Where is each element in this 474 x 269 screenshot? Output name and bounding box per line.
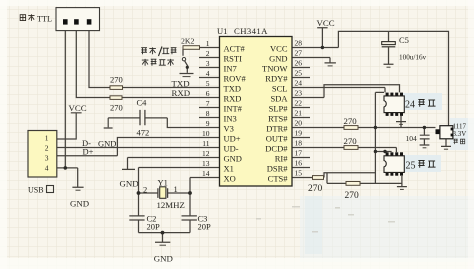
svg-text:RDY#: RDY# (265, 74, 288, 84)
svg-text:SLP#: SLP# (269, 104, 289, 114)
svg-text:270: 270 (110, 103, 123, 113)
svg-text:U1: U1 (217, 26, 227, 36)
svg-text:6: 6 (206, 89, 210, 98)
svg-text:GND: GND (154, 253, 173, 263)
svg-text:100u/16v: 100u/16v (399, 53, 427, 61)
svg-text:104: 104 (406, 134, 418, 143)
svg-text:CTS#: CTS# (268, 174, 289, 184)
svg-text:INT#: INT# (224, 104, 243, 114)
svg-text:UD-: UD- (224, 144, 239, 154)
svg-text:23: 23 (295, 89, 303, 98)
svg-text:12: 12 (202, 149, 210, 158)
svg-text:24: 24 (295, 79, 303, 88)
svg-text:TXD: TXD (224, 84, 241, 94)
svg-text:IN3: IN3 (224, 114, 237, 124)
svg-text:OUT#: OUT# (266, 134, 288, 144)
svg-text:2K2: 2K2 (181, 36, 195, 45)
svg-text:26: 26 (295, 59, 303, 68)
svg-text:RXD: RXD (224, 94, 242, 104)
svg-text:270: 270 (345, 191, 360, 201)
svg-text:C4: C4 (137, 98, 148, 108)
svg-text:D+: D+ (83, 147, 94, 157)
svg-text:CH341A: CH341A (234, 26, 268, 36)
svg-text:RI#: RI# (275, 154, 289, 164)
svg-text:TXD: TXD (172, 78, 190, 88)
svg-text:RSTI: RSTI (224, 54, 243, 64)
svg-text:270: 270 (344, 116, 358, 126)
svg-text:14: 14 (202, 169, 210, 178)
svg-text:9: 9 (206, 119, 210, 128)
svg-text:3: 3 (45, 154, 49, 163)
svg-text:GND: GND (98, 138, 116, 148)
svg-text:VCC: VCC (317, 18, 335, 28)
svg-text:22: 22 (295, 99, 303, 108)
svg-text:V3: V3 (224, 124, 234, 134)
svg-text:16: 16 (295, 159, 303, 168)
svg-text:7: 7 (206, 99, 210, 108)
svg-text:2: 2 (143, 185, 147, 195)
svg-text:DTR#: DTR# (266, 124, 288, 134)
svg-text:X1: X1 (224, 164, 234, 174)
svg-text:21: 21 (295, 109, 303, 118)
svg-text:25: 25 (406, 161, 416, 172)
svg-text:25: 25 (295, 69, 303, 78)
svg-text:GND: GND (120, 178, 139, 188)
svg-text:13: 13 (202, 159, 210, 168)
svg-text:DSR#: DSR# (267, 164, 289, 174)
svg-text:VCC: VCC (69, 103, 87, 113)
svg-text:GND: GND (70, 198, 89, 208)
svg-text:472: 472 (137, 128, 150, 138)
svg-text:TNOW: TNOW (262, 64, 288, 74)
svg-text:VCC: VCC (270, 44, 288, 54)
svg-text:270: 270 (308, 184, 323, 194)
svg-text:11: 11 (202, 139, 209, 148)
svg-text:IN7: IN7 (224, 64, 237, 74)
svg-text:DCD#: DCD# (265, 144, 288, 154)
svg-text:SCL: SCL (272, 84, 288, 94)
svg-text:18: 18 (295, 139, 303, 148)
svg-text:20: 20 (295, 119, 303, 128)
svg-text:ACT#: ACT# (224, 44, 246, 54)
svg-text:1: 1 (45, 134, 49, 143)
svg-text:RXD: RXD (172, 88, 191, 98)
svg-text:12MHZ: 12MHZ (157, 200, 185, 210)
svg-text:24: 24 (405, 100, 415, 111)
svg-text:XO: XO (224, 174, 236, 184)
svg-text:USB: USB (28, 185, 44, 194)
svg-text:20P: 20P (198, 222, 212, 232)
svg-text:270: 270 (110, 75, 123, 85)
svg-text:RTS#: RTS# (268, 114, 288, 124)
svg-text:19: 19 (295, 129, 303, 138)
svg-text:UD+: UD+ (224, 134, 241, 144)
svg-text:15: 15 (295, 169, 303, 178)
svg-text:4: 4 (45, 164, 49, 173)
svg-text:20P: 20P (147, 222, 161, 232)
svg-text:GND: GND (269, 54, 287, 64)
svg-text:28: 28 (295, 39, 303, 48)
svg-text:27: 27 (295, 49, 303, 58)
svg-text:Y1: Y1 (158, 178, 168, 188)
svg-text:17: 17 (295, 149, 303, 158)
svg-text:3: 3 (206, 59, 210, 68)
svg-text:2: 2 (45, 144, 49, 153)
svg-text:SDA: SDA (270, 94, 288, 104)
svg-text:2: 2 (206, 49, 210, 58)
svg-text:3.3V: 3.3V (453, 130, 467, 138)
svg-text:5: 5 (206, 79, 210, 88)
svg-text:4: 4 (206, 69, 210, 78)
svg-text:1: 1 (174, 184, 178, 194)
svg-text:TTL: TTL (37, 14, 52, 23)
svg-text:1: 1 (206, 39, 210, 48)
svg-text:ROV#: ROV# (224, 74, 247, 84)
svg-text:10: 10 (202, 129, 210, 138)
svg-text:8: 8 (206, 109, 210, 118)
svg-text:GND: GND (224, 154, 242, 164)
svg-text:270: 270 (344, 136, 358, 146)
svg-text:C5: C5 (399, 35, 409, 45)
